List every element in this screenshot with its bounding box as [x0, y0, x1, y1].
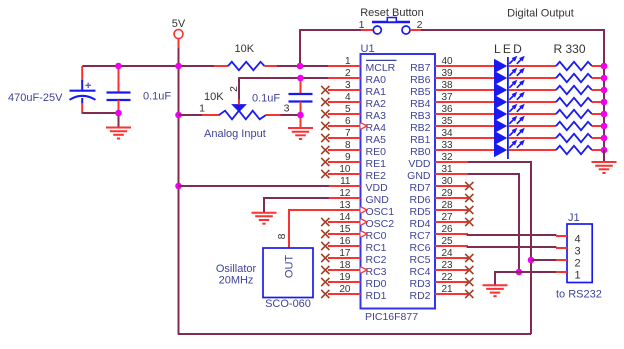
svg-text:0.1uF: 0.1uF	[143, 91, 171, 103]
svg-text:6: 6	[345, 116, 351, 127]
pin 13 stub	[328, 209, 361, 211]
wire LED to R330 row 2	[509, 77, 556, 79]
reset button contact 1	[373, 26, 381, 34]
wire pin25 to J1 pin3	[467, 246, 557, 248]
junction dot R330 #6	[601, 123, 608, 130]
junction dot C3 top	[297, 75, 304, 82]
svg-text:23: 23	[442, 260, 454, 271]
svg-text:RC6: RC6	[409, 242, 430, 254]
svg-text:2: 2	[345, 68, 351, 79]
svg-text:LED: LED	[494, 42, 524, 56]
svg-text:Osillator: Osillator	[216, 263, 257, 275]
clock marker pin 13	[361, 207, 368, 214]
svg-text:RD3: RD3	[409, 278, 430, 290]
svg-text:OUT: OUT	[284, 255, 296, 279]
wire capacitor bottoms	[82, 112, 119, 114]
svg-text:18: 18	[339, 260, 351, 271]
svg-text:40: 40	[442, 56, 454, 67]
svg-text:RA2: RA2	[366, 98, 387, 110]
wire pin26 to J1 pin4	[467, 234, 557, 236]
svg-text:J1: J1	[568, 212, 580, 224]
svg-text:35: 35	[442, 116, 454, 127]
capacitor C1 curved plate	[70, 96, 96, 100]
pin 19 stub	[328, 281, 361, 283]
wire LED to R330 row 1	[509, 65, 556, 67]
clock marker pin 18	[361, 267, 368, 274]
capacitor C1 lead bottom red	[81, 103, 83, 114]
LED D4 arrow a	[509, 95, 514, 100]
svg-text:32: 32	[442, 152, 454, 163]
svg-text:17: 17	[339, 248, 351, 259]
junction dot pot pin1	[175, 112, 182, 119]
capacitor C1 bottom lead blue	[81, 98, 83, 104]
svg-text:RD0: RD0	[366, 278, 387, 290]
junction dot C2 top	[115, 63, 122, 70]
pin 15 stub	[328, 233, 361, 235]
svg-text:VDD: VDD	[408, 158, 431, 170]
wire LED to R330 row 6	[509, 125, 556, 127]
potentiometer stub right	[266, 114, 281, 116]
svg-text:U1: U1	[361, 43, 375, 55]
svg-text:1: 1	[345, 56, 351, 67]
svg-text:RA5: RA5	[366, 134, 387, 146]
wire R1 to MCLR node	[277, 65, 329, 67]
svg-text:RB4: RB4	[410, 98, 431, 110]
capacitor C1 plus sign	[86, 83, 91, 88]
svg-text:11: 11	[340, 176, 351, 187]
wire RB5 to LED	[468, 89, 494, 91]
svg-text:RD5: RD5	[409, 206, 430, 218]
junction dot R330 #2	[601, 75, 608, 82]
resistor R330 #4	[556, 98, 592, 106]
resistor R330 #5 stub	[592, 113, 603, 115]
junction dot R330 #5	[601, 111, 608, 118]
pin 31 stub	[435, 173, 468, 175]
svg-text:31: 31	[442, 164, 454, 175]
wire pot left	[179, 114, 203, 116]
connector J1 pin 4 stub	[556, 235, 567, 237]
pin 6 stub	[328, 125, 361, 127]
svg-text:RA3: RA3	[366, 110, 387, 122]
svg-text:30: 30	[442, 176, 454, 187]
svg-text:GND: GND	[407, 170, 431, 182]
svg-text:to RS232: to RS232	[556, 289, 602, 301]
no-connect X pin 23	[465, 266, 473, 274]
svg-text:RB6: RB6	[410, 74, 431, 86]
resistor R330 #2 stub	[592, 77, 603, 79]
svg-text:25: 25	[442, 236, 454, 247]
svg-text:26: 26	[442, 224, 454, 235]
capacitor C3 bottom lead	[300, 102, 302, 116]
pin 22 stub	[435, 281, 468, 283]
svg-text:12: 12	[339, 188, 351, 199]
LED D7 triangle	[494, 131, 507, 145]
resistor R330 #8	[556, 146, 592, 154]
no-connect X pin 9	[321, 158, 329, 166]
op-amp U1 body	[361, 54, 436, 309]
pin 24 stub	[435, 257, 468, 259]
wire MCLR node vertical	[299, 29, 301, 67]
wire LED to R330 row 7	[509, 137, 556, 139]
svg-text:29: 29	[442, 188, 454, 199]
pin 17 stub	[328, 257, 361, 259]
pin 21 stub	[435, 293, 468, 295]
LED D4 triangle	[494, 95, 507, 109]
reset button actuator	[387, 18, 396, 23]
resistor R330 #7 stub	[592, 137, 603, 139]
pin 35 stub	[435, 125, 468, 127]
wire bottom loop	[178, 333, 531, 335]
junction dot MCLR	[297, 63, 304, 70]
pin 5 stub	[328, 113, 361, 115]
reset button bar	[372, 21, 410, 23]
svg-text:RB3: RB3	[410, 110, 431, 122]
svg-text:24: 24	[442, 248, 454, 259]
junction dot J1 pin2	[528, 257, 535, 264]
svg-text:27: 27	[442, 212, 454, 223]
LED cathode bar	[507, 57, 509, 159]
wire pin11 VDD to rail	[179, 185, 329, 187]
resistor R330 #4 stub	[592, 101, 603, 103]
svg-text:RD6: RD6	[409, 194, 430, 206]
LED D2 arrow a	[509, 71, 514, 76]
svg-text:5V: 5V	[172, 18, 186, 30]
wire pin31 GND net	[468, 174, 519, 272]
potentiometer wiper triangle	[232, 105, 245, 112]
LED D3 arrow b	[517, 83, 522, 88]
svg-text:RD2: RD2	[409, 290, 430, 302]
svg-text:16: 16	[339, 236, 351, 247]
junction dot C2 bottom	[115, 110, 122, 117]
no-connect X pin 30	[465, 182, 473, 190]
clock marker pin 14	[361, 219, 368, 226]
LED D1 triangle	[494, 59, 507, 73]
resistor R330 #3 stub	[592, 89, 603, 91]
svg-text:5: 5	[345, 104, 351, 115]
connector J1 body	[567, 224, 592, 283]
wire OSC1 net	[289, 210, 329, 248]
svg-text:SCO-060: SCO-060	[265, 298, 311, 310]
capacitor C3 plate bottom	[289, 100, 313, 102]
svg-text:RA4: RA4	[366, 122, 387, 134]
svg-text:28: 28	[442, 200, 454, 211]
junction dot R330 #3	[601, 87, 608, 94]
wire LED to R330 row 8	[509, 149, 556, 151]
potentiometer wiper stub	[238, 99, 240, 105]
svg-text:RC0: RC0	[366, 230, 387, 242]
junction dot R330 #7	[601, 135, 608, 142]
wire wiper up	[238, 78, 240, 99]
svg-text:0.1uF: 0.1uF	[252, 93, 280, 105]
pin 36 stub	[435, 113, 468, 115]
svg-text:RC4: RC4	[409, 266, 430, 278]
LED D5 arrow b	[517, 107, 522, 112]
connector J1 pin 3 stub	[556, 247, 567, 249]
junction dot R330 #8	[601, 147, 608, 154]
power node 5V circle	[174, 30, 183, 39]
svg-text:3: 3	[574, 246, 580, 258]
svg-text:RC1: RC1	[366, 242, 387, 254]
LED D1 arrow a	[509, 59, 514, 64]
svg-text:38: 38	[442, 80, 454, 91]
wire GND to ground	[495, 272, 519, 285]
svg-text:39: 39	[442, 68, 454, 79]
svg-text:1: 1	[359, 19, 365, 31]
svg-text:OSC1: OSC1	[366, 206, 395, 218]
pin 7 stub	[328, 137, 361, 139]
LED D2 arrow b	[517, 71, 522, 76]
svg-text:RE0: RE0	[366, 146, 387, 158]
capacitor C2 plate bottom	[107, 99, 131, 101]
clock marker pin 6	[361, 123, 368, 130]
wire 5V stub	[178, 39, 180, 49]
resistor R1 stub left	[214, 65, 228, 67]
svg-text:15: 15	[339, 224, 351, 235]
svg-text:2: 2	[574, 258, 580, 270]
svg-text:19: 19	[339, 272, 351, 283]
svg-text:13: 13	[339, 200, 351, 211]
LED D8 arrow a	[509, 143, 514, 148]
svg-text:8: 8	[276, 233, 288, 239]
pin 26 stub	[435, 233, 468, 235]
resistor R330 #2	[556, 74, 592, 82]
pin 1 stub	[328, 65, 361, 67]
wire RB7 to LED	[468, 65, 494, 67]
capacitor C1 470uF-25V flat plate	[70, 90, 96, 92]
pin 32 stub	[435, 161, 468, 163]
wire top rail	[82, 65, 215, 67]
svg-text:20: 20	[339, 284, 351, 295]
svg-text:4: 4	[345, 92, 351, 103]
wire RB2 to LED	[468, 125, 494, 127]
svg-text:RE1: RE1	[366, 158, 387, 170]
LED D6 arrow b	[517, 119, 522, 124]
svg-text:7: 7	[345, 128, 351, 139]
svg-text:RC5: RC5	[409, 254, 430, 266]
svg-text:21: 21	[442, 284, 454, 295]
no-connect X pin 7	[321, 134, 329, 142]
no-connect X pin 5	[321, 110, 329, 118]
reset button stub right	[410, 29, 421, 31]
pin 20 stub	[328, 293, 361, 295]
wire pin32 VDD net	[468, 162, 531, 334]
no-connect X pin 29	[465, 194, 473, 202]
LED D8 arrow b	[517, 143, 522, 148]
resistor R330 #6 stub	[592, 125, 603, 127]
svg-text:RE2: RE2	[366, 170, 387, 182]
capacitor C1 lead top red	[81, 66, 83, 81]
no-connect X pin 14	[321, 218, 329, 226]
svg-text:RC7: RC7	[409, 230, 430, 242]
no-connect X pin 21	[465, 290, 473, 298]
pin 23 stub	[435, 269, 468, 271]
LED D2 triangle	[494, 71, 507, 85]
no-connect X pin 27	[465, 218, 473, 226]
wire RB0 to LED	[468, 149, 494, 151]
resistor R1 10K zigzag	[228, 62, 265, 70]
wire ground stub C3	[300, 115, 302, 128]
svg-text:33: 33	[442, 140, 454, 151]
potentiometer RV1 zigzag	[219, 111, 266, 120]
pin 28 stub	[435, 209, 468, 211]
pin 40 stub	[435, 65, 468, 67]
pin 39 stub	[435, 77, 468, 79]
wire VDD to J1 pin2	[531, 259, 557, 261]
svg-text:VDD: VDD	[366, 182, 389, 194]
svg-text:RB7: RB7	[410, 62, 431, 74]
ground pin12	[252, 212, 277, 214]
ground under C3	[288, 127, 313, 129]
svg-text:MCLR: MCLR	[366, 62, 396, 74]
capacitor C3 top lead	[300, 78, 302, 94]
no-connect X pin 24	[465, 254, 473, 262]
svg-text:34: 34	[442, 128, 454, 139]
LED D5 triangle	[494, 107, 507, 121]
svg-text:10K: 10K	[204, 91, 224, 103]
wire LED to R330 row 3	[509, 89, 556, 91]
pin 16 stub	[328, 245, 361, 247]
resistor R330 #3	[556, 86, 592, 94]
no-connect X pin 22	[465, 278, 473, 286]
wire LED to R330 row 4	[509, 101, 556, 103]
reset button contact 2	[402, 26, 410, 34]
svg-text:R 330: R 330	[553, 42, 585, 56]
ground under C2	[106, 127, 131, 129]
svg-text:9: 9	[345, 152, 351, 163]
svg-text:Analog Input: Analog Input	[204, 128, 266, 140]
pin 25 stub	[435, 245, 468, 247]
pin 37 stub	[435, 101, 468, 103]
resistor R330 #1	[556, 62, 592, 70]
LED D7 arrow a	[509, 131, 514, 136]
oscillator X1 body	[263, 248, 313, 298]
wire reset right	[421, 30, 604, 66]
capacitor C2 bottom lead	[118, 100, 120, 113]
LED D1 arrow b	[517, 59, 522, 64]
svg-text:22: 22	[442, 272, 454, 283]
pin 9 stub	[328, 161, 361, 163]
junction dot R330 #4	[601, 99, 608, 106]
LED D6 arrow a	[509, 119, 514, 124]
svg-text:OSC2: OSC2	[366, 218, 395, 230]
svg-text:20MHz: 20MHz	[219, 275, 254, 287]
svg-text:RD4: RD4	[409, 218, 430, 230]
svg-text:1: 1	[574, 270, 580, 282]
resistor R1 stub right	[265, 65, 278, 67]
wire pot right	[281, 114, 301, 116]
svg-text:RA0: RA0	[366, 74, 387, 86]
wire RB1 to LED	[468, 137, 494, 139]
svg-text:2: 2	[228, 86, 240, 92]
svg-text:Reset Button: Reset Button	[360, 7, 424, 19]
svg-text:RC3: RC3	[366, 266, 387, 278]
clock marker pin 15	[361, 231, 368, 238]
wire reset left	[300, 29, 362, 31]
no-connect X pin 17	[321, 254, 329, 262]
resistor R330 #8 stub	[592, 149, 603, 151]
junction dot GND J1 pin1	[516, 269, 523, 276]
pin 38 stub	[435, 89, 468, 91]
capacitor C1 top lead blue	[81, 80, 83, 90]
svg-text:10: 10	[339, 164, 351, 175]
wire right ground drop	[603, 150, 605, 162]
svg-text:Digital Output: Digital Output	[507, 8, 574, 20]
pin 12 stub	[328, 197, 361, 199]
svg-text:RD1: RD1	[366, 290, 387, 302]
svg-text:10K: 10K	[235, 43, 255, 55]
no-connect X pin 4	[321, 98, 329, 106]
ground right rail	[592, 161, 617, 163]
pin 3 stub	[328, 89, 361, 91]
no-connect X pin 19	[321, 278, 329, 286]
svg-text:3: 3	[345, 80, 351, 91]
LED D7 arrow b	[517, 131, 522, 136]
resistor R330 #6	[556, 122, 592, 130]
no-connect X pin 10	[321, 170, 329, 178]
svg-text:37: 37	[442, 92, 454, 103]
no-connect X pin 6	[321, 122, 329, 130]
pin 34 stub	[435, 137, 468, 139]
pin 10 stub	[328, 173, 361, 175]
connector J1 pin 2 stub	[556, 259, 567, 261]
junction dot rail top	[175, 63, 182, 70]
wire LED to R330 row 5	[509, 113, 556, 115]
junction dot pot pin3	[297, 112, 304, 119]
wire RB3 to LED	[468, 113, 494, 115]
svg-text:RD7: RD7	[409, 182, 430, 194]
connector J1 pin 1 stub	[556, 271, 567, 273]
reset button stub left	[361, 29, 373, 31]
capacitor C2 plate top	[107, 91, 131, 93]
pin 11 stub	[328, 185, 361, 187]
svg-text:1: 1	[199, 103, 205, 115]
wire RB4 to LED	[468, 101, 494, 103]
svg-text:RC2: RC2	[366, 254, 387, 266]
potentiometer stub left	[202, 114, 220, 116]
MCLR overline	[366, 59, 397, 61]
capacitor C3 plate top	[289, 93, 313, 95]
no-connect X pin 16	[321, 242, 329, 250]
resistor R330 #7	[556, 134, 592, 142]
svg-text:8: 8	[345, 140, 351, 151]
svg-text:36: 36	[442, 104, 454, 115]
wire RB6 to LED	[468, 77, 494, 79]
pin 14 stub	[328, 221, 361, 223]
LED D8 triangle	[494, 143, 507, 157]
svg-text:RB1: RB1	[410, 134, 431, 146]
svg-text:470uF-25V: 470uF-25V	[8, 92, 63, 104]
LED D5 arrow a	[509, 107, 514, 112]
LED D3 arrow a	[509, 83, 514, 88]
pin 8 stub	[328, 149, 361, 151]
pin 4 stub	[328, 101, 361, 103]
no-connect X pin 18	[321, 266, 329, 274]
wire ground stub C2	[118, 113, 120, 128]
pin 30 stub	[435, 185, 468, 187]
LED D6 triangle	[494, 119, 507, 133]
pin 29 stub	[435, 197, 468, 199]
pin 18 stub	[328, 269, 361, 271]
wire R330 common rail	[603, 66, 605, 150]
no-connect X pin 20	[321, 290, 329, 298]
pin 33 stub	[435, 149, 468, 151]
wire pin12 GND	[264, 198, 329, 213]
no-connect X pin 15	[321, 230, 329, 238]
svg-text:PIC16F877: PIC16F877	[365, 311, 418, 323]
LED D4 arrow b	[517, 95, 522, 100]
junction dot pin11 VDD	[175, 183, 182, 190]
svg-text:RA1: RA1	[366, 86, 387, 98]
